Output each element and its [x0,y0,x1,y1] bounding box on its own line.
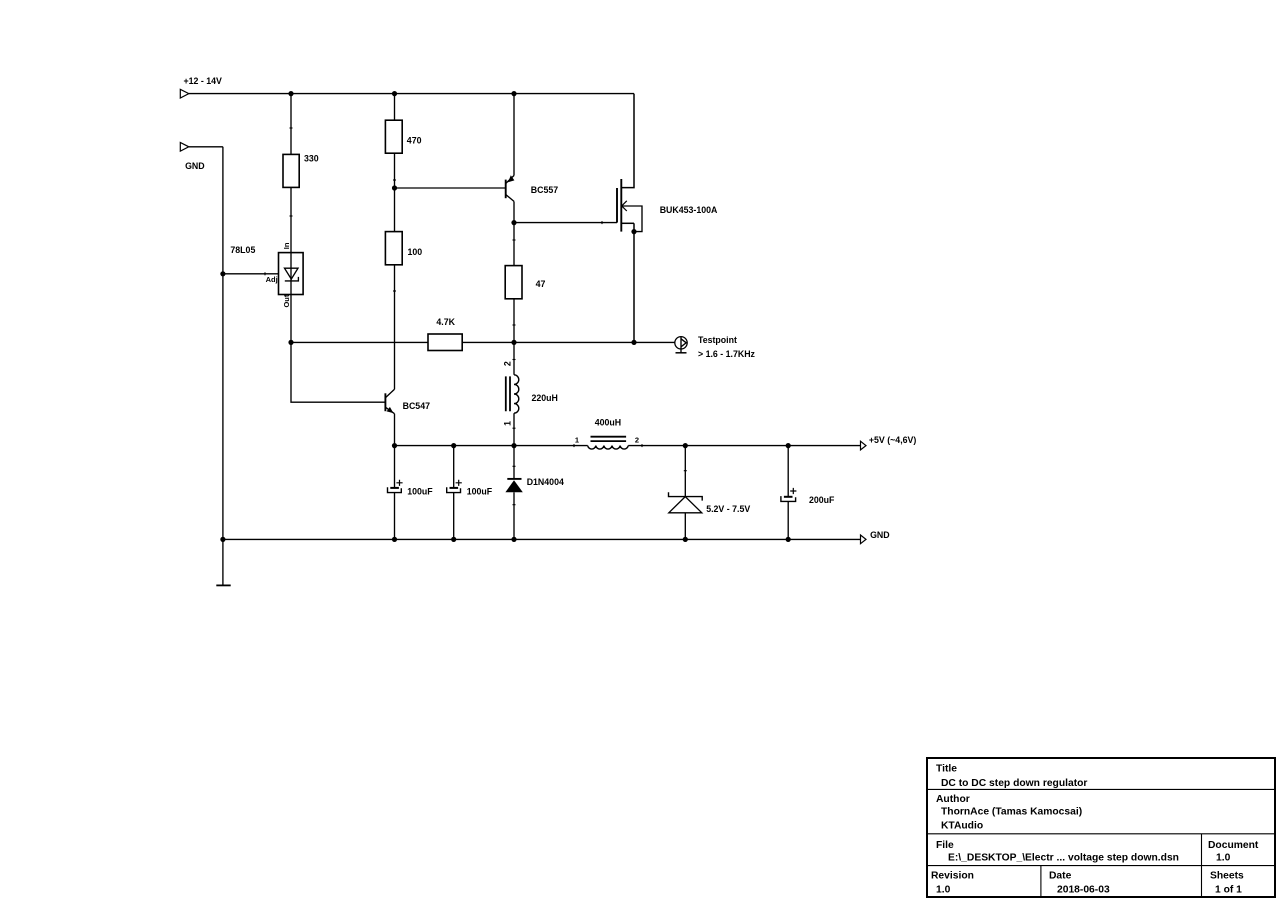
svg-text:100uF: 100uF [467,486,493,496]
svg-text:100: 100 [408,247,423,257]
wire R47 down [513,299,515,343]
junction 78L05 adj [220,271,225,276]
wire R470 down [394,153,396,231]
svg-text:ThornAce (Tamas Kamocsai): ThornAce (Tamas Kamocsai) [941,807,1082,818]
junction gnd x788.2 [786,537,791,542]
svg-text:Title: Title [936,764,957,775]
pin tick [573,444,575,447]
wire mid rail right [462,341,675,343]
wire gnd rail [223,538,861,540]
pin tick [393,179,396,181]
wire mid rail left [291,341,428,343]
mosfet BUK453-100A [617,94,642,343]
wire 78L05 out down [290,295,292,343]
svg-text:330: 330 [304,154,319,164]
junction mid x514 [511,340,516,345]
zener diode 5.2V-7.5V [669,446,703,540]
transistor BC547 [385,389,394,445]
port arrow +12-14V [180,89,189,98]
regulator U 78L05 [279,253,304,295]
title block [927,758,1275,897]
wire +5 rail right [628,445,860,447]
svg-text:1: 1 [575,436,579,445]
svg-text:KTAudio: KTAudio [941,820,983,831]
wire +5 rail left [395,445,588,447]
svg-text:In: In [282,242,291,249]
pin tick [513,239,516,241]
junction gnd x514 [511,537,516,542]
junction mid wire x291 [288,340,293,345]
svg-text:2018-06-03: 2018-06-03 [1057,885,1110,896]
pin tick adj [264,272,266,275]
svg-text:200uF: 200uF [809,495,835,505]
svg-text:GND: GND [870,530,890,540]
svg-text:1.0: 1.0 [936,885,951,896]
wire adj [223,273,279,275]
wire base BC557 [395,187,506,189]
capacitor 100uF #1 [388,446,403,540]
junction +5 rail x685.3 [683,443,688,448]
inductor 220uH [506,342,519,445]
svg-text:4.7K: 4.7K [436,317,455,327]
svg-text:Author: Author [936,794,970,805]
ground symbol [216,584,230,586]
svg-text:2: 2 [635,436,639,445]
transistor BC557 [506,94,515,223]
svg-text:BUK453-100A: BUK453-100A [660,205,718,215]
svg-text:BC547: BC547 [403,401,430,411]
svg-text:Document: Document [1208,840,1259,851]
svg-text:GND: GND [185,161,205,171]
wire BC557 collector down [513,223,515,266]
svg-text:File: File [936,840,954,851]
svg-text:D1N4004: D1N4004 [527,477,564,487]
svg-text:1: 1 [503,421,513,426]
pin tick [641,444,643,447]
wire gate [514,222,617,224]
inductor 400uH [588,437,629,449]
svg-text:100uF: 100uF [407,486,433,496]
junction +5 rail x394.5 [392,443,397,448]
svg-text:Testpoint: Testpoint [698,335,737,345]
wire top rail [189,93,634,95]
pin tick [290,127,293,129]
resistor 100 [385,232,402,265]
pin tick [290,215,293,217]
wire to R470 [394,94,396,121]
resistor 470 [385,120,402,153]
junction base node [392,185,397,190]
port arrow GND input [180,143,189,152]
svg-text:Out: Out [282,294,291,307]
svg-text:Date: Date [1049,871,1072,882]
svg-text:1 of 1: 1 of 1 [1215,885,1242,896]
pin tick [513,324,516,326]
resistor 47 [505,266,522,299]
svg-text:E:\_DESKTOP_\Electr ... voltag: E:\_DESKTOP_\Electr ... voltage step dow… [948,853,1179,864]
junction top rail x394.5 [392,91,397,96]
junction gnd x394.5 [392,537,397,542]
junction source node [631,229,636,234]
capacitor 200uF [781,446,797,540]
svg-text:BC557: BC557 [531,185,558,195]
svg-text:DC to DC step down regulator: DC to DC step down regulator [941,778,1087,789]
junction gnd x453.7 [451,537,456,542]
svg-text:5.2V - 7.5V: 5.2V - 7.5V [706,504,750,514]
svg-text:2: 2 [503,361,513,366]
junction gate node [511,220,516,225]
wire left gnd vertical [222,147,224,586]
svg-text:1.0: 1.0 [1216,853,1231,864]
title block text [931,764,1259,896]
pin tick [393,290,396,292]
svg-text:Adj: Adj [266,275,278,284]
svg-text:> 1.6 - 1.7KHz: > 1.6 - 1.7KHz [698,349,756,359]
pin tick gate [601,221,603,224]
svg-text:47: 47 [536,279,546,289]
testpoint [675,337,687,353]
svg-text:+12 - 14V: +12 - 14V [184,76,223,86]
wire base run down [291,342,385,402]
junction mid x634 [631,340,636,345]
port arrow +5V [861,441,867,450]
wire R100 down to Q2 collector [394,265,396,390]
junction +5 rail x514 [511,443,516,448]
svg-text:470: 470 [407,136,422,146]
svg-text:220uH: 220uH [532,393,558,403]
capacitor 100uF #2 [447,446,462,540]
junction +5 rail x453.7 [451,443,456,448]
svg-text:Sheets: Sheets [1210,871,1244,882]
svg-text:400uH: 400uH [595,418,621,428]
svg-text:+5V (~4,6V): +5V (~4,6V) [869,435,917,445]
junction +5 rail x788.2 [786,443,791,448]
resistor 330 [283,154,299,187]
resistor 4.7K [428,334,462,351]
wire R330 to 78L05 [290,187,292,252]
wire to R330 [290,94,292,155]
diode D1N4004 [505,446,522,540]
wire gnd input [189,146,223,148]
svg-text:78L05: 78L05 [230,245,255,255]
junction top rail x291 [288,91,293,96]
junction gnd x685.3 [683,537,688,542]
port arrow GND out [861,535,867,544]
junction gnd rail left [220,537,225,542]
svg-text:Revision: Revision [931,871,974,882]
junction top rail x514 [511,91,516,96]
